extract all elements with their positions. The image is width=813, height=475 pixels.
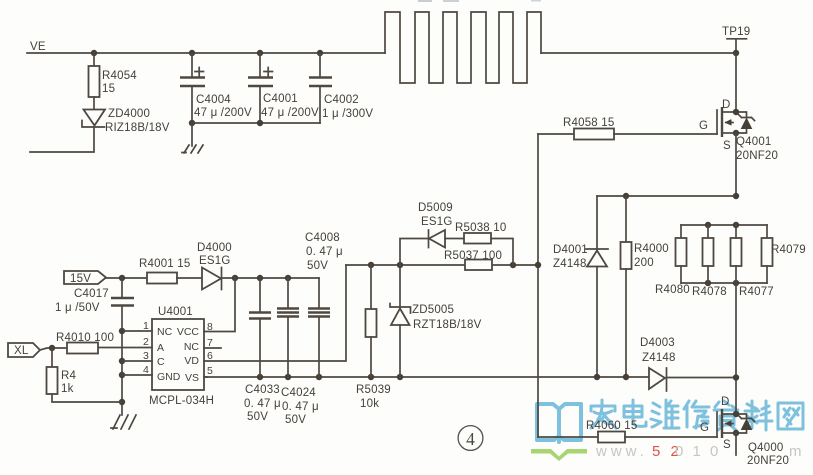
svg-text:2: 2 <box>143 336 149 348</box>
resistor R4001 15 <box>139 258 201 284</box>
node junction gate net <box>535 262 541 268</box>
node junction 15V/C4017 <box>119 275 125 281</box>
svg-text:ZD5005: ZD5005 <box>412 304 454 316</box>
svg-text:D4000: D4000 <box>197 242 232 254</box>
resistor R4078 <box>692 225 727 298</box>
svg-text:R4: R4 <box>61 370 77 382</box>
svg-text:4: 4 <box>143 364 149 376</box>
svg-text:ES1G: ES1G <box>199 255 230 267</box>
svg-text:U4001: U4001 <box>158 306 193 318</box>
node junction XL/R4 <box>49 345 55 351</box>
svg-text:GND: GND <box>157 371 181 383</box>
svg-text:0. 47 μ: 0. 47 μ <box>244 398 281 410</box>
resistor R5037 100 <box>444 250 502 270</box>
svg-text:47 μ /200V: 47 μ /200V <box>194 107 252 119</box>
svg-text:5: 5 <box>207 365 213 377</box>
diode D4000 ES1G <box>197 242 319 290</box>
svg-text:R4010 100: R4010 100 <box>56 332 114 344</box>
node junction Q4000 drain <box>733 411 739 417</box>
watermark url m <box>789 443 802 460</box>
svg-text:C4001: C4001 <box>263 93 298 105</box>
node junctions bank bottom <box>705 280 739 286</box>
node junction VD/R5039 <box>368 262 374 268</box>
svg-text:R5039: R5039 <box>356 384 391 396</box>
resistor R4060 15 <box>586 420 717 443</box>
svg-text:ES1G: ES1G <box>421 216 452 228</box>
ground below C4004 <box>182 123 203 153</box>
pin 3 stub <box>122 350 152 362</box>
svg-text:Z4148: Z4148 <box>553 258 587 270</box>
node junction Q4000 source <box>733 430 739 436</box>
label Q4001 20NF20 <box>736 136 778 162</box>
svg-text:S: S <box>723 439 731 451</box>
wire TP19 to Q4001 drain <box>735 53 737 112</box>
svg-text:Z4148: Z4148 <box>642 352 676 364</box>
pin label D of Q4000 <box>721 396 730 408</box>
svg-text:R5038 10: R5038 10 <box>455 222 506 234</box>
wire parallel bank top bus <box>681 224 767 226</box>
svg-text:VS: VS <box>185 372 199 384</box>
svg-text:C4033: C4033 <box>245 384 280 396</box>
wire meander to TP19/drain <box>541 52 736 54</box>
svg-text:C4004: C4004 <box>196 94 231 106</box>
watermark url 52 red <box>652 443 682 460</box>
watermark url www <box>595 443 648 460</box>
transistor Q4000 20NF20 MOSFET <box>717 409 736 438</box>
node junction Q4001 source <box>733 130 739 136</box>
pin label D of Q4001 <box>722 99 731 111</box>
svg-text:RIZ18B/18V: RIZ18B/18V <box>105 122 170 134</box>
flag 15V <box>64 271 106 285</box>
node junction Q4001 drain <box>733 109 739 115</box>
svg-text:8: 8 <box>207 321 213 333</box>
svg-text:R4079: R4079 <box>771 244 806 256</box>
svg-text:20NF20: 20NF20 <box>736 150 778 162</box>
node junctions bank top <box>705 222 739 228</box>
svg-text:VCC: VCC <box>177 326 200 338</box>
svg-text:1 μ /50V: 1 μ /50V <box>55 302 100 314</box>
svg-text:NC: NC <box>184 341 200 353</box>
svg-text:7: 7 <box>207 337 213 349</box>
svg-text:XL: XL <box>14 345 29 357</box>
label Q4000 20NF20 <box>747 442 789 467</box>
svg-text:G: G <box>699 120 708 132</box>
node junction VCC rail C4024 <box>285 275 291 281</box>
svg-text:R5037 100: R5037 100 <box>444 250 502 262</box>
capacitor C4001 47u/200V <box>248 53 319 123</box>
node junction VE/C4002 <box>317 50 323 56</box>
svg-text:TP19: TP19 <box>722 26 750 38</box>
IC U4001 MCPL-034H <box>149 306 214 407</box>
wire bank to D4003 node <box>735 283 737 414</box>
svg-text:D4001: D4001 <box>553 244 588 256</box>
watermark hanzi xiu <box>684 401 709 428</box>
pin 8 stub and riser <box>204 278 235 333</box>
svg-text:Q4001: Q4001 <box>736 136 772 148</box>
diode D4001 Z4148 <box>553 196 608 377</box>
svg-text:15V: 15V <box>70 273 91 285</box>
svg-text:200: 200 <box>634 257 654 269</box>
body diode of Q4000 <box>736 414 755 433</box>
resistor R4058 15 <box>538 117 717 140</box>
svg-text:G: G <box>700 422 709 434</box>
wire 15V rail <box>106 277 147 279</box>
svg-text:0. 47 μ: 0. 47 μ <box>282 401 319 413</box>
svg-text:VE: VE <box>30 41 46 53</box>
svg-text:20NF20: 20NF20 <box>747 455 789 467</box>
resistor R4080 <box>655 225 690 296</box>
node junction C4004 bottom <box>189 120 195 126</box>
wire Q4000 source down <box>735 433 737 455</box>
node junction D4003/Q4000 drain net <box>733 374 739 380</box>
wire gate net vertical <box>537 134 539 437</box>
svg-text:C4017: C4017 <box>74 288 109 300</box>
node junction R5038 drop <box>510 262 516 268</box>
svg-text:D: D <box>721 396 730 408</box>
test point TP19 <box>722 26 750 53</box>
node VE label <box>30 41 46 53</box>
svg-text:A: A <box>157 342 164 354</box>
capacitor C4004 47u/200V <box>180 53 252 123</box>
wire VS bottom rail <box>204 376 648 378</box>
svg-text:R4060 15: R4060 15 <box>586 420 637 432</box>
resistor R4 1k <box>47 348 123 402</box>
svg-text:50V: 50V <box>285 414 306 426</box>
wire gate net to R4060 <box>538 436 598 438</box>
resistor R5038 10 <box>455 222 513 265</box>
node junction VCC rail pin8 riser <box>232 275 238 281</box>
node junction VE/R4054 <box>91 50 97 56</box>
diode D4003 Z4148 <box>640 337 736 391</box>
pin label S of Q4001 <box>723 140 731 152</box>
resistor R5039 10k <box>356 265 391 410</box>
capacitor C4002 1u/300V <box>309 53 373 123</box>
pin label S of Q4000 <box>723 439 731 451</box>
pin label G of Q4000 <box>700 422 709 434</box>
pin 6 stub and riser <box>204 265 346 362</box>
scan artifact marks top edge <box>418 0 541 2</box>
svg-text:C4008: C4008 <box>305 232 340 244</box>
diode D5009 ES1G branch <box>400 202 464 265</box>
svg-text:R4078: R4078 <box>692 286 727 298</box>
capacitor C4024 0.47u 50V <box>277 278 319 426</box>
flag XL <box>8 343 40 357</box>
node junction VE/C4004 <box>189 50 195 56</box>
svg-text:NC: NC <box>157 326 173 338</box>
svg-text:10k: 10k <box>360 398 379 410</box>
wire mid rail <box>597 195 736 197</box>
svg-text:D5009: D5009 <box>418 202 453 214</box>
svg-text:m: m <box>789 443 802 460</box>
svg-text:R4077: R4077 <box>739 286 774 298</box>
svg-text:D4003: D4003 <box>640 337 675 349</box>
svg-text:R4054: R4054 <box>102 70 137 82</box>
wire capacitor bottom bus <box>192 122 320 124</box>
svg-text:3: 3 <box>143 350 149 362</box>
svg-text:47 μ /200V: 47 μ /200V <box>261 107 319 119</box>
watermark hanzi jia <box>591 400 616 428</box>
svg-text:MCPL-034H: MCPL-034H <box>149 395 214 407</box>
watermark hanzi wei <box>651 400 679 428</box>
pin 1 stub <box>122 320 152 332</box>
node junction mid rail R4000 <box>623 193 629 199</box>
svg-text:4: 4 <box>466 429 475 449</box>
resistor R4079 <box>762 225 806 283</box>
watermark book logo blue pages <box>537 404 581 442</box>
node junction mid rail source <box>733 193 739 199</box>
node junction VCC rail C4033 <box>257 275 263 281</box>
svg-text:50V: 50V <box>307 260 328 272</box>
svg-text:1: 1 <box>143 320 149 332</box>
watermark hanzi wang <box>778 403 803 429</box>
svg-text:1k: 1k <box>61 383 74 395</box>
node junction VE/C4001 <box>257 50 263 56</box>
svg-text:R4000: R4000 <box>634 243 669 255</box>
zener diode ZD4000 RIZ18B/18V <box>30 108 170 152</box>
resistor R4077 <box>731 225 774 298</box>
pin 2 stub <box>98 336 152 348</box>
ground below U4001 bus <box>111 415 136 429</box>
watermark url 010 <box>675 443 721 460</box>
svg-text:VD: VD <box>184 355 199 367</box>
wire Q4001 source down <box>735 133 737 196</box>
watermark hanzi dian <box>624 400 646 426</box>
transistor Q4001 20NF20 MOSFET <box>717 107 736 137</box>
capacitor C4033 0.47u 50V <box>244 278 281 423</box>
node junctions left bus <box>119 328 125 405</box>
watermark book logo green base <box>531 449 587 461</box>
node junction C4001 bottom <box>257 120 263 126</box>
capacitor C4008 0.47u 50V <box>305 232 343 377</box>
resistor R4000 200 <box>621 196 669 377</box>
inductor winding meander <box>385 12 541 83</box>
watermark hanzi liao <box>745 401 772 430</box>
svg-text:6: 6 <box>207 350 213 362</box>
svg-text:D: D <box>722 99 731 111</box>
svg-text:RZT18B/18V: RZT18B/18V <box>413 319 482 331</box>
wire parallel bank bottom bus <box>681 282 767 284</box>
zener diode ZD5005 RZT18B/18V <box>390 265 482 377</box>
svg-text:R4080: R4080 <box>655 284 690 296</box>
pin 7 stub <box>204 337 221 349</box>
svg-text:0. 47 μ: 0. 47 μ <box>306 246 343 258</box>
pin label G of Q4001 <box>699 120 708 132</box>
svg-text:C4002: C4002 <box>324 94 359 106</box>
svg-text:1 μ /300V: 1 μ /300V <box>322 108 373 120</box>
svg-text:ZD4000: ZD4000 <box>108 108 150 120</box>
svg-text:R4058 15: R4058 15 <box>563 117 614 129</box>
svg-text:C4024: C4024 <box>281 387 316 399</box>
wire VE top rail <box>27 52 385 54</box>
body diode of Q4001 <box>736 112 755 133</box>
watermark hanzi zi <box>714 401 738 430</box>
svg-text:15: 15 <box>102 83 115 95</box>
wire VD net horizontal <box>346 264 538 266</box>
svg-text:R4001 15: R4001 15 <box>139 258 190 270</box>
resistor R4010 100 <box>56 332 114 354</box>
svg-text:50V: 50V <box>247 411 268 423</box>
svg-text:0 1 0: 0 1 0 <box>675 443 721 460</box>
svg-text:C: C <box>157 356 165 368</box>
pin 5 stub <box>204 365 213 377</box>
svg-text:Q4000: Q4000 <box>748 442 784 454</box>
wire XL to R4010 <box>40 348 67 350</box>
pin 4 stub <box>122 364 152 376</box>
svg-text:www.: www. <box>595 443 648 460</box>
node junctions bottom rail <box>257 374 629 380</box>
page number circle 4 <box>458 426 483 451</box>
svg-text:S: S <box>723 140 731 152</box>
node junction TP19 <box>733 50 739 56</box>
resistor R4054 <box>89 53 138 109</box>
capacitor C4017 1u/50V <box>55 278 134 415</box>
node junction VD/ZD5005 <box>397 262 403 268</box>
